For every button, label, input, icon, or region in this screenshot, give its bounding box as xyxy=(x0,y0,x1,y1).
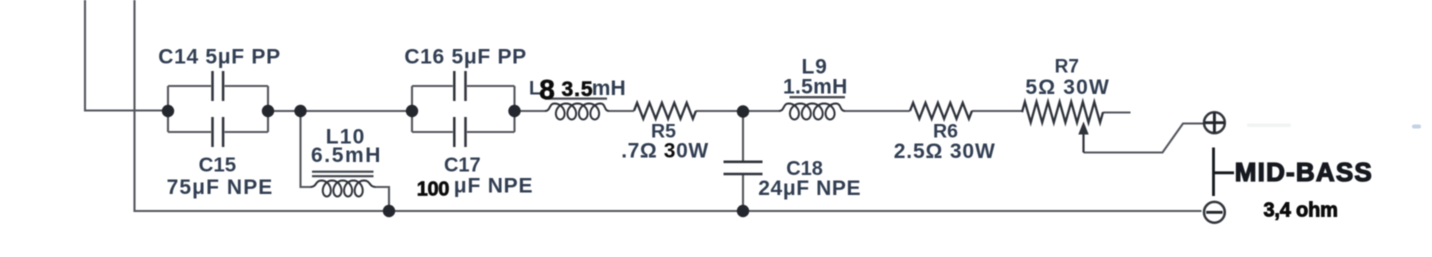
svg-text:μF NPE: μF NPE xyxy=(454,174,534,197)
svg-text:6.5mH: 6.5mH xyxy=(311,144,382,167)
svg-text:2.5Ω 30W: 2.5Ω 30W xyxy=(894,140,996,163)
svg-text:3.5: 3.5 xyxy=(562,78,594,101)
svg-text:R6: R6 xyxy=(933,121,958,143)
svg-text:mH: mH xyxy=(592,77,626,100)
svg-text:5Ω 30W: 5Ω 30W xyxy=(1025,76,1110,99)
svg-text:1.5mH: 1.5mH xyxy=(783,76,848,99)
svg-text:.7Ω 30W: .7Ω 30W xyxy=(621,139,709,162)
svg-text:75μF NPE: 75μF NPE xyxy=(167,176,274,199)
svg-text:C15: C15 xyxy=(199,153,237,176)
svg-text:C16 5μF PP: C16 5μF PP xyxy=(404,46,527,69)
svg-text:24μF NPE: 24μF NPE xyxy=(758,177,861,200)
svg-text:C14 5μF PP: C14 5μF PP xyxy=(158,46,281,69)
svg-text:R7: R7 xyxy=(1055,57,1079,78)
svg-text:100: 100 xyxy=(417,179,449,201)
svg-text:C17: C17 xyxy=(444,154,481,176)
svg-text:3,4 ohm: 3,4 ohm xyxy=(1264,199,1338,221)
svg-text:8: 8 xyxy=(539,74,555,105)
svg-text:MID-BASS: MID-BASS xyxy=(1235,157,1373,187)
